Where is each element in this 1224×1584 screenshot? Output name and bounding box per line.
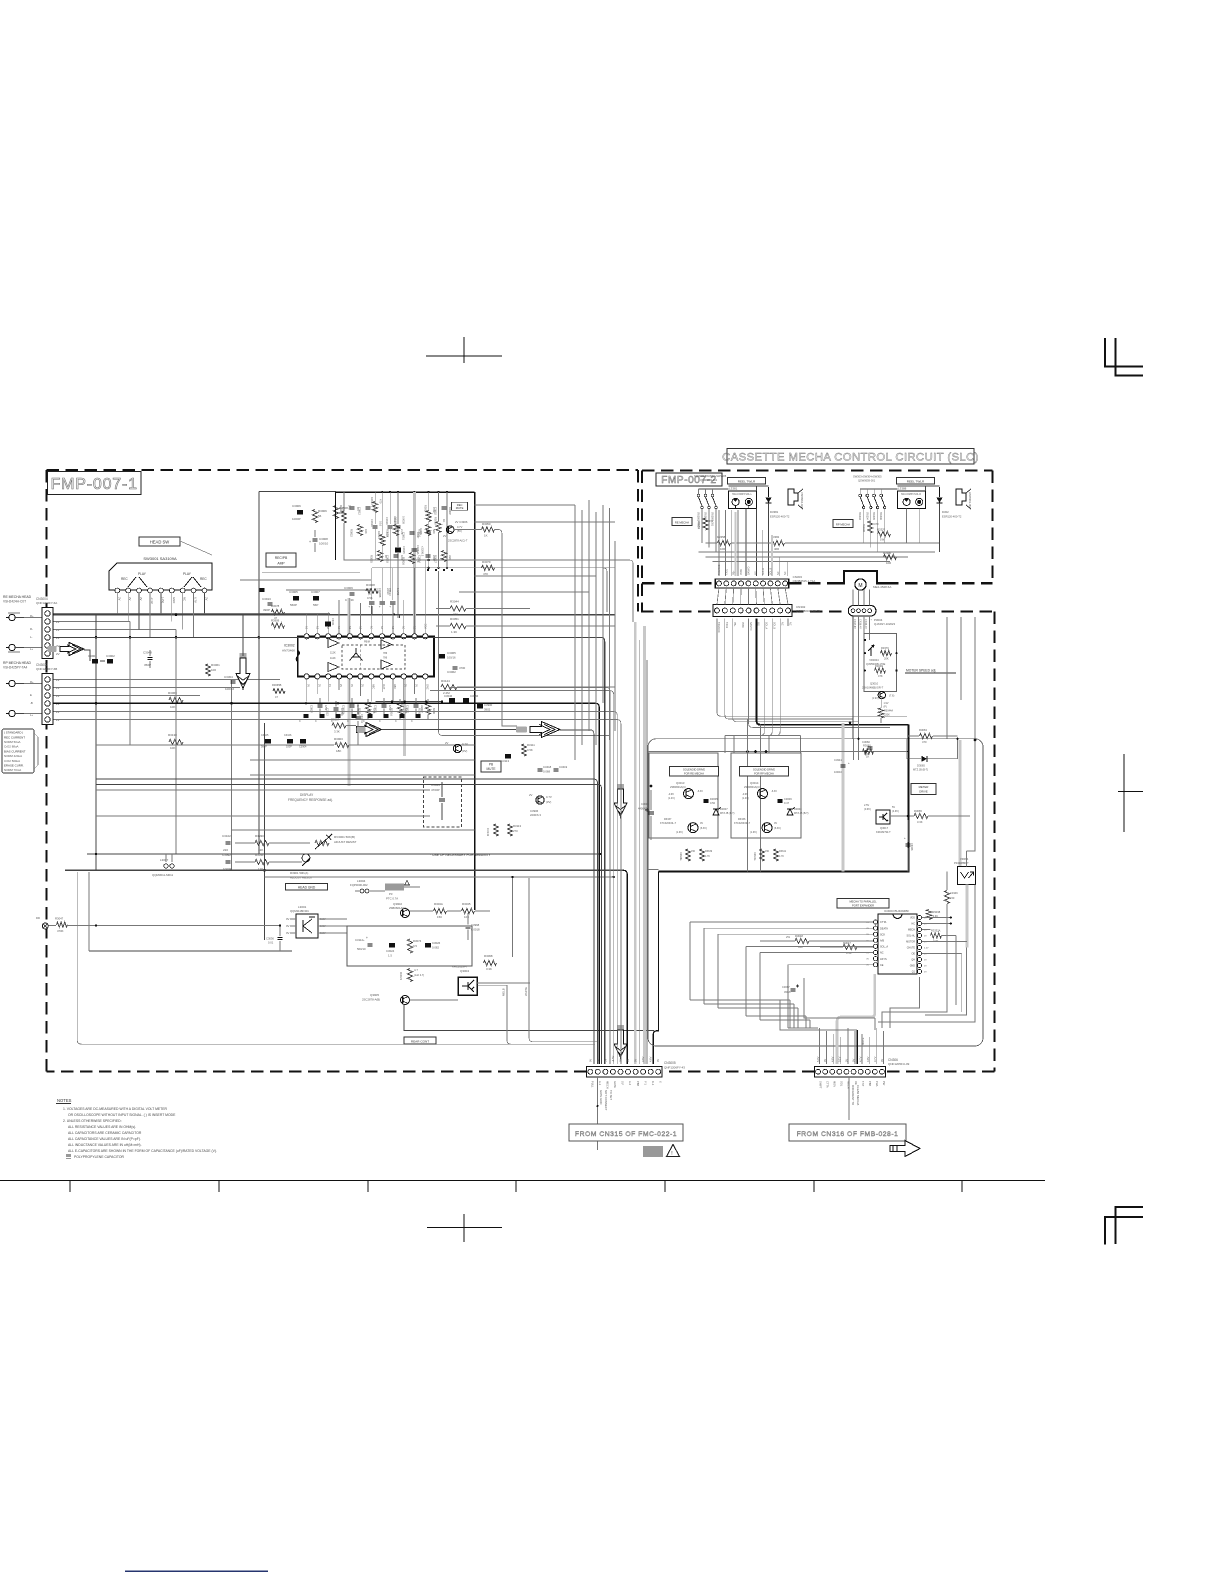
pb amp arrow at head input [60,643,84,656]
svg-text:C3907: C3907 [311,590,320,594]
svg-text:5V: 5V [634,1059,638,1062]
svg-text:C3341: C3341 [834,758,842,762]
resistor R3908 540 [333,506,338,519]
svg-text:SOLENOID DRIVE: SOLENOID DRIVE [683,768,705,772]
resistors under driver 1 [685,849,690,861]
REC MUTE label box [452,502,468,510]
resistor R3338B vertical [868,521,873,533]
svg-text:DISPLAY: DISPLAY [300,793,314,797]
svg-text:C: C [379,720,381,723]
resistor R3390 10R [884,554,897,559]
svg-text:C3904: C3904 [299,746,307,749]
svg-text:R3338a: R3338a [679,852,682,861]
photo interrupter Q3004 [458,977,477,995]
svg-text:NC: NC [880,952,884,955]
svg-text:KRC827W-T: KRC827W-T [876,830,891,834]
IC3002 pins top [304,634,309,639]
svg-text:FMP-007-1: FMP-007-1 [51,476,138,493]
svg-text:FROM CN315 OF FMC-022-1: FROM CN315 OF FMC-022-1 [575,1131,677,1138]
svg-text:SOL.B: SOL.B [769,568,772,575]
svg-text:-0.9V: -0.9V [668,793,674,796]
resistor R3018 1K column [436,522,441,533]
svg-text:C3056: C3056 [470,694,479,698]
node dots left bus [95,636,98,639]
svg-text:CrO2 88uA: CrO2 88uA [4,745,19,749]
IC3002 pins bottom [304,674,309,679]
svg-text:100: 100 [211,668,216,672]
hollow down arrow mid 2 [617,1025,624,1031]
dashed border FMP-007-1 / lower-right block [47,469,639,471]
svg-text:PHA: PHA [875,1081,879,1087]
diode D3065 horizontal [907,758,921,760]
svg-text:R3903: R3903 [334,737,343,741]
svg-text:C: C [315,720,317,723]
motor speed adj cluster enclosure [864,634,897,692]
capacitor C3008 electrolytic [648,811,654,813]
svg-text:(7.6): (7.6) [889,694,894,698]
capacitor C3909 + R3908b [350,592,355,594]
dark rail from bus y=784.3 [96,784,602,1064]
resistor R3061 [205,664,210,676]
svg-text:1.3K: 1.3K [451,630,457,634]
svg-text:C3901: C3901 [88,654,97,658]
svg-text:10R: 10R [886,561,891,565]
motor connector CN301 [848,606,876,617]
svg-text:KRC102M-T: KRC102M-T [452,965,468,969]
svg-text:2V: 2V [117,597,121,601]
bus row y=567.8 [372,567,615,569]
svg-text:R3337: R3337 [664,818,672,821]
svg-text:4.7: 4.7 [414,968,418,972]
svg-text:MOTER SPEED adj.: MOTER SPEED adj. [906,669,936,673]
wide gray bus through IC [348,598,351,786]
wire bus from CN3004/CN3002 to amp section [54,613,331,615]
svg-text:ABC: ABC [393,684,396,689]
svg-text:C3916: C3916 [385,517,389,525]
svg-text:NOT CONNECT: NOT CONNECT [604,1090,608,1111]
component R3923 [393,525,398,536]
svg-text:MELB: MELB [502,988,506,996]
svg-text:GND: GND [910,965,916,968]
svg-text:POW: POW [740,569,743,575]
svg-text:(1uF 4.7): (1uF 4.7) [414,974,424,977]
component C3914b [350,704,355,706]
electrolytic C3107A [355,716,361,718]
svg-text:10K: 10K [364,529,368,534]
svg-text:SW3903-SW3904+SW3905: SW3903-SW3904+SW3905 [694,474,727,478]
svg-text:R3048: R3048 [875,664,883,668]
svg-text:!: ! [671,1151,672,1157]
svg-text:1K: 1K [866,755,869,759]
switch contacts left group [697,494,700,497]
component C3934 [426,554,431,556]
svg-text:CLEAN MECHA: CLEAN MECHA [856,1085,860,1105]
svg-text:+: + [389,605,391,609]
wide gray rails to CN3005 [634,622,637,1064]
svg-text:L3388: L3388 [898,487,907,491]
label box FMP-007-2 [656,473,722,486]
svg-text:0.47: 0.47 [784,801,790,805]
resistor R3063b 470 [920,733,933,738]
resistor R3078b 47K on bus [482,565,495,570]
capacitor C3304 [231,680,236,682]
solenoid block right [898,491,926,509]
dark rail from bus y=779 [96,779,598,1064]
svg-text:(3V): (3V) [462,749,467,753]
svg-text:C3915: C3915 [402,546,406,554]
svg-text:FOR RP MECHA: FOR RP MECHA [754,772,774,776]
resistor R3913 470 column [373,502,378,513]
svg-text:NORM 50uA: NORM 50uA [4,740,20,744]
svg-text:MS: MS [757,622,760,626]
heavy sub-bus under IC [375,701,442,703]
right block wires down [906,509,908,544]
svg-text:C3008: C3008 [641,802,649,806]
resistor R3358 [718,540,731,545]
registration corner top-right [1105,338,1143,367]
svg-text:ASYS: ASYS [880,958,887,961]
svg-text:R+: R+ [30,614,34,618]
svg-text:46R: 46R [774,547,779,551]
svg-text:5V: 5V [603,1059,607,1062]
warning triangle legend [667,1145,680,1157]
svg-text:C3060: C3060 [862,740,870,744]
svg-text:C3932: C3932 [434,507,438,515]
svg-text:PULL: PULL [590,1081,594,1088]
svg-text:R3044A: R3044A [884,710,893,713]
svg-text:10K: 10K [170,746,175,750]
wires from strip2 curving right toward motor columns [717,619,907,717]
svg-text:QNF1206FY-6A: QNF1206FY-6A [36,601,57,605]
svg-text:C3112: C3112 [326,708,330,716]
svg-text:0V: 0V [414,626,417,629]
meter VR3064 sensor box [958,867,976,885]
resistor R3078 47 [272,609,285,614]
svg-text:2V: 2V [205,597,209,601]
solenoid speaker symbol right [956,489,966,505]
long wire from bus down around to rear cont [77,872,404,1044]
svg-text:-0.9V: -0.9V [742,793,748,796]
svg-text:R3901 50K(A): R3901 50K(A) [290,871,308,875]
svg-text:1W: 1W [880,538,885,542]
component C3927 [414,704,419,706]
svg-text:4.7K: 4.7K [779,855,784,858]
capacitor C3917 0.0039 column [396,525,401,527]
svg-text:S.F: S.F [621,1081,625,1085]
svg-text:RP MECHA: RP MECHA [836,523,850,527]
svg-text:CN16.4V: CN16.4V [859,619,862,629]
svg-text:ERASE CURR.: ERASE CURR. [4,764,24,768]
svg-text:TXD/RXD: TXD/RXD [718,564,721,575]
svg-text:VCC: VCC [424,624,427,629]
junction dots on top rail [381,491,383,493]
svg-text:R3338: R3338 [933,910,941,914]
resistor R3046 150 [434,908,447,913]
PB MUTE label box [481,761,501,772]
svg-text:D3007: D3007 [720,807,728,811]
svg-text:MTZ.JB (B-T): MTZ.JB (B-T) [913,769,928,772]
svg-text:10K: 10K [170,705,175,709]
svg-text:TXD1: TXD1 [725,622,728,629]
svg-text:0.16: 0.16 [379,521,383,527]
svg-text:0V: 0V [286,931,290,935]
svg-text:0V: 0V [656,1059,660,1062]
svg-text:2SB0601A(C): 2SB0601A(C) [744,785,760,789]
svg-text:+: + [848,761,850,765]
svg-text:QQM3011-M011: QQM3011-M011 [152,873,173,877]
svg-text:QJASSY-102023: QJASSY-102023 [874,622,895,626]
wire verticals right of amp block [574,505,576,760]
resistor R3066 150 vertical [944,891,949,904]
svg-text:R+: R+ [30,680,34,684]
svg-text:C3917: C3917 [393,516,397,524]
svg-text:-6.3V: -6.3V [697,790,703,793]
resistor R3903 18K [335,742,349,747]
svg-text:3.3K: 3.3K [334,730,340,734]
svg-text:SOLENOID DRIVE: SOLENOID DRIVE [753,768,775,772]
svg-text:OR OSCILLOSCOPE WITHOUT INPUT: OR OSCILLOSCOPE WITHOUT INPUT SIGNAL. ( … [68,1113,176,1117]
svg-text:R3336: R3336 [738,818,746,821]
transistor Q3911 [536,796,544,804]
svg-text:REC: REC [121,577,128,581]
svg-text:0V: 0V [381,626,384,629]
svg-text:C: C [395,720,397,723]
svg-text:(1.4V): (1.4V) [742,797,749,800]
svg-text:ESR120-400-T2: ESR120-400-T2 [942,515,962,519]
svg-text:C3105: C3105 [261,734,269,737]
svg-text:DEATA: DEATA [880,927,888,930]
svg-text:VSH2424H-C0T: VSH2424H-C0T [3,600,26,604]
svg-text:6.7V: 6.7V [194,597,198,603]
svg-text:MECHA TO PARALLEL: MECHA TO PARALLEL [849,900,877,904]
svg-text:CHUTE: CHUTE [907,947,916,950]
svg-text:0.082: 0.082 [432,946,439,950]
svg-text:+: + [904,836,906,840]
svg-text:PW: PW [882,1081,886,1086]
transistor Q3015 [688,823,698,833]
svg-text:ALL CAPACITORS ARE CERAMIC CAP: ALL CAPACITORS ARE CERAMIC CAPACITOR [68,1131,142,1135]
svg-text:RV3001 50K(B): RV3001 50K(B) [334,835,355,839]
solenoid block left [729,491,757,509]
svg-text:2V: 2V [316,626,319,629]
svg-text:2V: 2V [339,684,342,687]
svg-text:PLAY: PLAY [183,572,192,576]
component C3933 [394,554,399,556]
svg-text:C3934: C3934 [418,555,422,563]
wide gray from IC CE pin down to CN306 [837,974,875,1064]
svg-text:C3113: C3113 [501,759,509,763]
svg-text:PB+: PB+ [733,570,736,575]
svg-text:2%: 2% [786,935,791,939]
block caps row y=741 [265,739,271,744]
svg-text:R3047: R3047 [843,941,851,945]
svg-text:4700: 4700 [459,666,466,670]
connector CN303 (upper strip) [715,579,789,588]
svg-text:ABC: ABC [371,684,374,689]
IC3002 internal op-amps [328,639,339,648]
svg-text:C3048: C3048 [143,651,152,655]
svg-text:BIAS CURRENT: BIAS CURRENT [4,749,26,753]
svg-text:NC: NC [784,571,787,575]
svg-text:0V: 0V [286,924,290,928]
svg-text:Q3010: Q3010 [870,682,879,686]
svg-text:0.7V: 0.7V [457,525,463,529]
diode D302 [939,487,941,497]
svg-text:2V: 2V [317,684,320,687]
svg-text:C: C [363,720,365,723]
svg-text:NORM 70mA: NORM 70mA [4,768,21,772]
svg-text:MUTE: MUTE [861,1037,865,1045]
svg-text:NORM 420uA: NORM 420uA [4,754,22,758]
svg-text:C3346: C3346 [950,891,958,895]
long bus y=870.3 [65,869,623,871]
hollow down arrow mid 1 [617,784,624,790]
svg-text:470: 470 [874,522,879,526]
IC3002 internal dashed box [342,645,405,669]
svg-text:R3047: R3047 [55,917,64,921]
resistor R3065 3.3K [914,813,928,818]
oscillator trimmer row 2 [226,860,231,862]
bus y=751.5 [648,751,908,753]
svg-text:2V: 2V [360,626,363,629]
svg-text:C3026: C3026 [432,941,441,945]
zener D3007 [713,809,719,815]
svg-text:4.7K: 4.7K [705,855,710,858]
right-side long verticals from border [946,617,948,739]
svg-text:C3908: C3908 [319,537,328,541]
resistor R3379 20K [881,651,892,656]
heavy rail from ground bus y=870.3 corner [623,870,627,1064]
svg-text:(-2V): (-2V) [161,597,165,603]
svg-text:MTZ.JB (B-T): MTZ.JB (B-T) [794,812,809,815]
svg-text:SCK: SCK [880,933,885,936]
loop wire y=560 corner down [615,560,633,622]
electrolytic C3064A on gray bus [411,548,417,550]
svg-text:R-: R- [30,627,33,631]
motor pin columns down [852,616,854,739]
hollow down arrow left (bias) [240,653,247,659]
capacitor C3060 0.0018 [466,925,471,927]
resistor R3048 47K [875,668,886,673]
svg-text:PB8: PB8 [636,1081,640,1086]
svg-text:-4.5V: -4.5V [611,1056,615,1062]
wide gray nets in FMP2 bundle [734,512,736,576]
resistor R3914 1.5K [380,535,385,546]
junction dot rows [427,569,429,571]
SOLENOID DRIVE FOR RE MECHA label 1 [670,767,719,777]
svg-text:220: 220 [223,848,228,852]
R3323 R3111 cluster [521,744,526,756]
svg-text:C3066: C3066 [910,843,913,851]
svg-text:1.5: 1.5 [388,954,392,958]
svg-text:R3341: R3341 [779,850,787,853]
svg-text:270: 270 [513,829,518,833]
dashed border FMP-007-2 [642,469,993,471]
left block wires down [718,510,720,576]
svg-text:47P: 47P [372,507,376,512]
svg-text:+: + [379,605,381,609]
svg-text:C3910: C3910 [388,588,392,596]
svg-text:+: + [366,936,368,940]
svg-text:786: 786 [383,652,388,655]
wire horizontals upper right of amp [475,504,576,506]
wires strip1 to strip2 [717,588,719,605]
svg-text:112K: 112K [330,652,336,655]
svg-text:2V: 2V [392,626,395,629]
svg-text:QNF1205FU-09: QNF1205FU-09 [888,1062,910,1066]
component R3924 [425,525,430,536]
svg-text:PLAY: PLAY [138,572,147,576]
capacitor C3916B 0.068 [426,530,431,532]
svg-text:100/10: 100/10 [834,770,842,774]
svg-text:R3113: R3113 [513,824,521,828]
svg-text:R3060: R3060 [863,744,871,748]
capacitor C3919 0.16 [373,525,378,527]
svg-text:R3063: R3063 [168,691,177,695]
transistor Q3005 [401,996,410,1005]
main amp block enclosure thick top [336,491,475,493]
svg-text:SW303: SW303 [858,512,861,521]
svg-text:C3919: C3919 [370,519,374,527]
svg-text:REC: REC [457,503,463,507]
registration cross right-middle [1123,754,1125,832]
svg-text:REEL TWLR: REEL TWLR [907,480,925,484]
svg-text:R3061: R3061 [211,663,220,667]
svg-text:R3124: R3124 [441,679,450,683]
photo box output wire MELB [478,985,595,1044]
svg-text:R3330: R3330 [255,834,264,838]
svg-text:1. VOLTAGES ARE DC-MEASURED WI: 1. VOLTAGES ARE DC-MEASURED WITH A DIGIT… [63,1107,167,1111]
svg-text:10R: 10R [720,547,725,551]
svg-text:C3905: C3905 [289,590,298,594]
zener D3008 [787,809,793,815]
svg-text:SW3001 SA3109A: SW3001 SA3109A [143,556,177,561]
svg-text:RE MECHA HEAD: RE MECHA HEAD [3,595,32,599]
svg-text:P3: P3 [389,892,393,896]
solenoid driver block 1 enclosure [649,753,718,838]
registration cross top-center [426,355,502,357]
svg-text:MS: MS [755,571,758,575]
jack plugs RE head [9,614,15,620]
svg-text:CTTA: CTTA [825,1081,829,1088]
svg-text:C3908B: C3908B [378,588,382,598]
svg-text:A-2: A-2 [628,1081,632,1086]
svg-text:C3419: C3419 [559,765,568,769]
svg-text:D302: D302 [942,510,949,514]
svg-text:VR064: VR064 [960,857,969,861]
svg-text:SOL_A: SOL_A [880,946,888,949]
jack plugs RP head [9,680,15,686]
svg-text:0V: 0V [626,1059,630,1062]
svg-text:C3062: C3062 [447,670,456,674]
electrolytic C3112b [368,943,373,945]
svg-text:3.3K: 3.3K [486,967,492,971]
svg-text:6.3/35: 6.3/35 [396,588,400,596]
svg-text:QSW0659-001: QSW0659-001 [858,479,876,483]
bottom rule with ticks [0,1180,1045,1182]
svg-text:786: 786 [383,657,388,660]
capacitor C3036 0.01 [278,936,283,938]
svg-text:100/16: 100/16 [225,687,235,691]
svg-text:-B: -B [30,701,33,705]
svg-text:REAR CONT: REAR CONT [411,1039,429,1043]
svg-text:Q3004: Q3004 [460,969,469,973]
svg-text:REC/PB: REC/PB [275,556,288,560]
svg-text:R3379: R3379 [881,646,889,650]
transistor Q3013 [684,789,694,799]
left long horizontals lower [96,815,430,817]
svg-text:0V: 0V [350,684,353,687]
